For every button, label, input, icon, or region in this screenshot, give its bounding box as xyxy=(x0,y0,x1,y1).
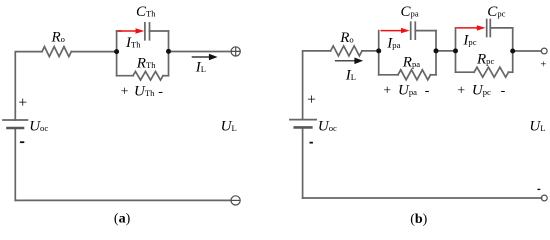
svg-text:Uoc: Uoc xyxy=(29,118,48,134)
terminal circle (b) top xyxy=(541,48,547,54)
terminal circle (b) bottom xyxy=(541,195,547,201)
svg-text:(b): (b) xyxy=(410,212,427,227)
capacitor C_pc plates xyxy=(487,20,491,37)
svg-text:+UTh-: +UTh- xyxy=(121,83,164,99)
wire: (a) node to + terminal xyxy=(169,51,232,53)
capacitor C_Th plates xyxy=(145,23,150,40)
wire: (b) RC1 top branch right segment xyxy=(415,30,436,32)
wire: (a) RC top branch left stub xyxy=(117,30,121,32)
node dot (b) right of RC2 xyxy=(510,49,515,54)
wire: (b) RC1 bottom branch right segment xyxy=(431,74,437,76)
svg-text:RTh: RTh xyxy=(136,56,156,72)
wire: (a) RC bottom branch right segment xyxy=(163,75,169,77)
terminal circle minus (a) xyxy=(231,196,240,205)
svg-text:+: + xyxy=(540,59,546,70)
battery - sign (b) xyxy=(310,142,313,144)
svg-text:Cpa: Cpa xyxy=(401,4,419,20)
resistor R_Th (a) xyxy=(133,71,163,80)
current arrow I_Th (red) on C_Th branch xyxy=(118,28,144,33)
current arrow I_pc (red) on C_pc branch xyxy=(456,25,485,30)
wire: (b) RC2 top branch right segment xyxy=(490,27,512,29)
terminal - sign (b) xyxy=(537,189,540,190)
node dot (a) right of RC xyxy=(166,49,171,54)
current arrow I_pa (red) on C_pa branch xyxy=(381,28,410,33)
resistor R_pa (b) xyxy=(398,70,431,80)
wire: (a) RC top branch right segment xyxy=(150,30,169,32)
wire: (b) RC1 loop right vertical xyxy=(435,31,437,75)
wire: (b) bottom wire xyxy=(303,197,542,199)
wire: (b) RC2 loop right vertical xyxy=(512,28,514,72)
current arrow I_L (a) xyxy=(192,54,218,61)
battery U_oc (b) long positive plate xyxy=(290,119,316,121)
current arrow I_L (b) xyxy=(335,58,363,65)
svg-text:(a): (a) xyxy=(114,211,131,226)
svg-text:Rpc: Rpc xyxy=(476,51,494,67)
svg-text:Rpa: Rpa xyxy=(402,55,420,71)
svg-text:+: + xyxy=(18,95,27,112)
wire: (b) RC1 bottom branch left segment xyxy=(379,74,398,76)
svg-text:+Upa-: +Upa- xyxy=(383,82,430,98)
svg-text:IL: IL xyxy=(345,67,356,83)
svg-text:+Upc-: +Upc- xyxy=(457,82,505,98)
svg-text:CTh: CTh xyxy=(136,4,156,20)
wire: (b) left vertical upper segment and top run to R_o xyxy=(303,51,331,120)
resistor R_pc (b) xyxy=(474,67,508,77)
resistor R_o (b) xyxy=(331,46,362,56)
wire: (a) RC bottom branch left segment xyxy=(117,75,133,77)
svg-text:UL: UL xyxy=(529,118,545,134)
wire: (a) left vertical upper segment and top run to R_o xyxy=(15,52,42,120)
wire: (b) node to + terminal xyxy=(513,50,542,52)
wire: (a) RC loop right vertical xyxy=(168,31,170,76)
svg-text:Uoc: Uoc xyxy=(318,118,337,134)
wire: (a) RC loop left vertical xyxy=(116,31,118,76)
svg-text:Ro: Ro xyxy=(51,30,65,46)
node dot (b) left of RC2 xyxy=(453,48,458,53)
battery U_oc (a) short negative plate xyxy=(8,127,24,130)
wire: (b) left vertical lower segment xyxy=(302,127,304,198)
resistor R_o (a) xyxy=(42,47,71,57)
wire: (a) left vertical lower segment xyxy=(14,128,16,200)
wire: (b) RC1 loop left vertical xyxy=(378,31,380,75)
svg-text:IL: IL xyxy=(195,60,206,76)
battery U_oc (b) short negative plate xyxy=(295,126,312,129)
battery U_oc (a) long positive plate xyxy=(3,119,28,121)
svg-text:ITh: ITh xyxy=(125,35,141,51)
wire: (b) link RC1 to RC2 xyxy=(436,50,456,52)
battery - sign (a) xyxy=(20,141,24,143)
wire: (b) RC2 loop left vertical xyxy=(455,28,457,72)
wire: (b) R_o to node xyxy=(362,50,379,52)
wire: (b) RC2 bottom branch left segment xyxy=(456,71,475,73)
svg-text:UL: UL xyxy=(221,118,237,134)
svg-text:+: + xyxy=(307,92,316,109)
capacitor C_pa plates xyxy=(411,22,416,39)
svg-text:Ipa: Ipa xyxy=(386,35,400,51)
terminal circle plus (a) xyxy=(231,47,240,56)
svg-text:Ro: Ro xyxy=(339,30,353,46)
node dot (a) left of RC xyxy=(114,49,119,54)
node dot (b) right of RC1 xyxy=(434,48,439,53)
wire: (a) bottom wire xyxy=(15,199,231,201)
wire: (a) R_o to node xyxy=(71,51,116,53)
svg-text:Cpc: Cpc xyxy=(487,4,505,20)
wire: (b) RC2 bottom branch right segment xyxy=(509,71,513,73)
node dot (b) left of RC1 xyxy=(376,48,381,53)
svg-text:Ipc: Ipc xyxy=(462,33,476,49)
